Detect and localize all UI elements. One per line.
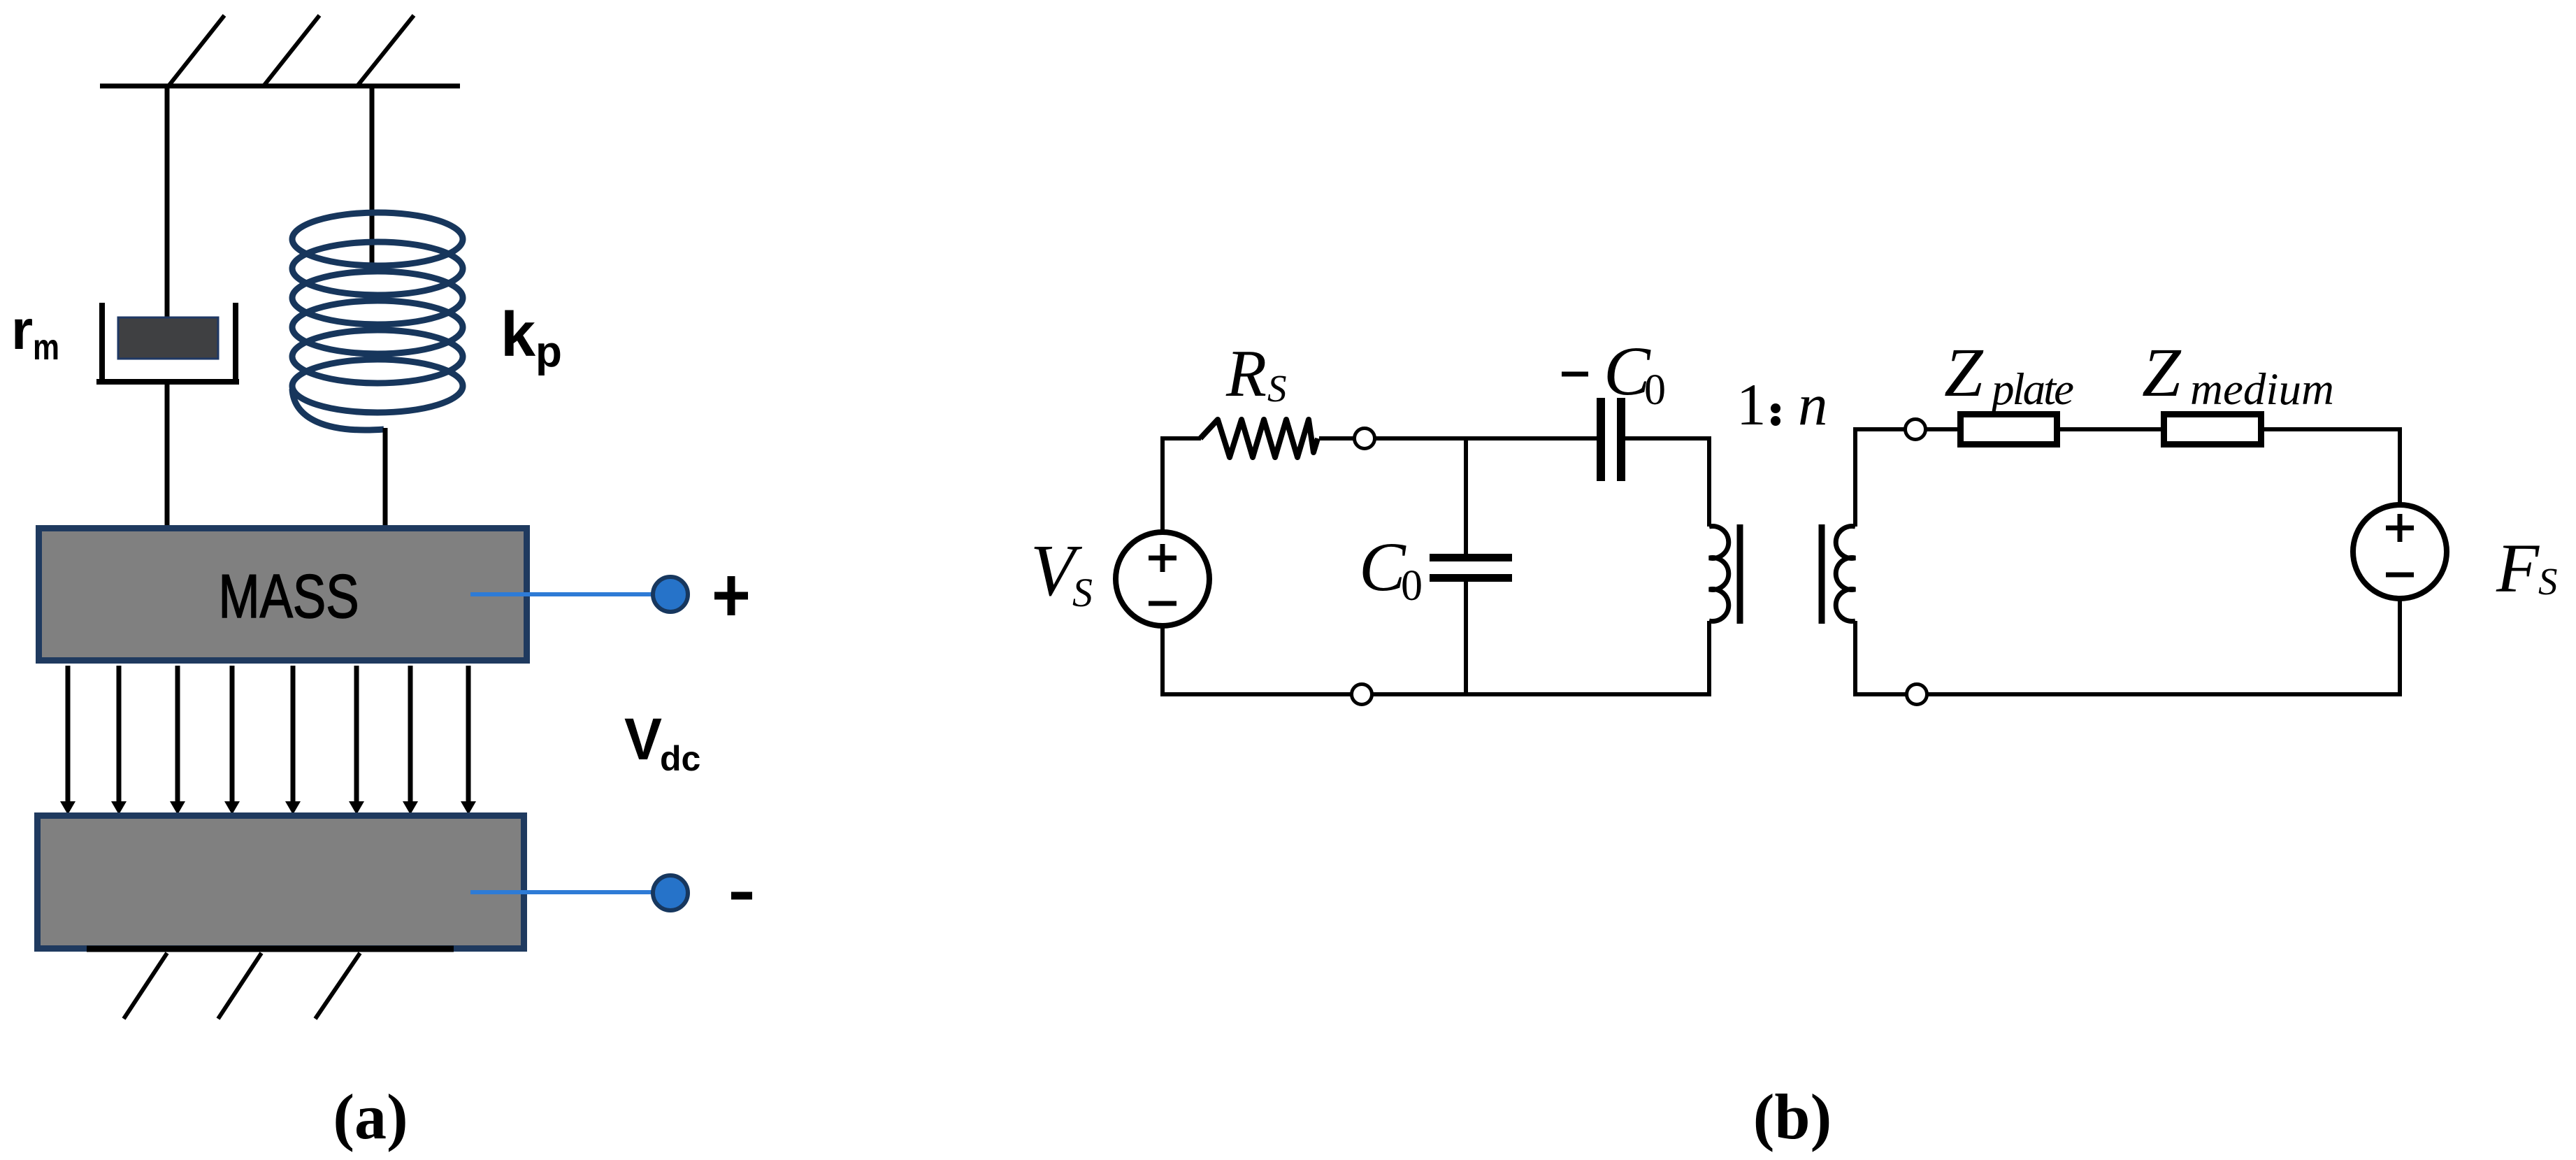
electrode wire plus	[470, 592, 660, 596]
transformer primary coil	[1709, 527, 1729, 622]
svg-text:C: C	[1359, 528, 1406, 606]
svg-text:0: 0	[1644, 366, 1666, 414]
svg-text:0: 0	[1401, 562, 1423, 610]
right loop top wire seg4	[2264, 427, 2402, 431]
svg-text:Z: Z	[1944, 334, 1984, 411]
damper rod upper	[165, 86, 170, 320]
transformer core bar left	[1737, 524, 1743, 624]
bottom wire left segment	[1160, 692, 1353, 696]
mid branch wire lower	[1464, 582, 1468, 694]
svg-text:medium: medium	[2190, 364, 2334, 415]
impedance Z_plate box	[1961, 415, 2057, 445]
ground hatch 3	[315, 953, 360, 1019]
wire primary vertical lower	[1707, 621, 1711, 696]
svg-text:r: r	[11, 299, 33, 361]
svg-text:S: S	[1072, 570, 1093, 615]
capacitor -C0 plates	[1601, 398, 1621, 481]
right loop top wire seg1	[1855, 427, 1907, 431]
spring coil k_p	[292, 213, 463, 430]
svg-text:F: F	[2496, 529, 2540, 607]
damper cup	[96, 303, 239, 382]
ceiling wall line	[100, 84, 460, 89]
svg-text:k: k	[501, 300, 536, 370]
damper rod lower	[165, 385, 170, 528]
spring top lead	[370, 86, 375, 264]
wire -C0 to corner	[1625, 436, 1711, 441]
svg-text:p: p	[535, 328, 562, 376]
node terminal top right	[1906, 420, 1926, 440]
spring bottom lead	[383, 428, 388, 528]
resistor R_S	[1200, 420, 1318, 457]
ground hatch 1	[124, 953, 167, 1019]
svg-text:plate: plate	[1989, 364, 2074, 415]
svg-text:S: S	[2538, 560, 2558, 603]
source F_S	[2353, 505, 2447, 599]
svg-text:V: V	[624, 706, 662, 772]
svg-text:MASS: MASS	[219, 561, 359, 631]
label plus	[714, 576, 748, 615]
mid branch wire upper	[1464, 438, 1468, 554]
ground hatch 2	[218, 953, 261, 1019]
electrode wire minus	[470, 890, 660, 894]
wire resistor to node	[1319, 436, 1356, 441]
capacitor C0 plates	[1430, 558, 1512, 578]
wire node to -C0	[1373, 436, 1597, 441]
wire left vertical lower	[1160, 626, 1165, 696]
F_S plus sign	[2386, 514, 2414, 542]
MASS plate	[39, 529, 527, 661]
transformer core bar right	[1819, 524, 1825, 624]
terminal plus dot	[653, 577, 688, 612]
wire top left	[1160, 436, 1201, 441]
ceiling hatch 1	[168, 15, 224, 86]
ceiling hatch 3	[357, 15, 414, 86]
label -C0	[1562, 372, 1588, 377]
impedance Z_medium box	[2164, 415, 2261, 445]
source V_S	[1116, 532, 1209, 626]
svg-text:m: m	[33, 327, 59, 368]
V_S plus sign	[1149, 544, 1177, 572]
right loop bottom wire seg1	[1853, 692, 1908, 696]
right vertical lower	[2398, 599, 2402, 696]
svg-text:(a): (a)	[333, 1081, 408, 1152]
right vertical upper	[2398, 427, 2402, 505]
svg-text:dc: dc	[660, 739, 700, 778]
svg-text:Z: Z	[2142, 334, 2182, 411]
right loop top wire seg3	[2060, 427, 2161, 431]
bottom electrode plate	[38, 816, 524, 949]
damper piston r_m	[118, 317, 218, 359]
svg-text:1: 1	[1736, 372, 1766, 438]
svg-text:R: R	[1225, 336, 1267, 410]
V_S minus sign	[1149, 601, 1177, 606]
svg-text:S: S	[1267, 367, 1287, 410]
right loop bottom wire seg2	[1925, 692, 2402, 696]
svg-text:n: n	[1798, 372, 1828, 438]
svg-text:(b): (b)	[1753, 1081, 1832, 1152]
wire primary vertical upper	[1707, 436, 1711, 527]
F_S minus sign	[2386, 573, 2414, 578]
transformer secondary coil	[1836, 527, 1855, 622]
wire left vertical upper	[1160, 438, 1165, 532]
wire secondary vertical upper	[1853, 427, 1857, 527]
label minus	[731, 892, 752, 900]
node terminal bottom left	[1352, 685, 1372, 705]
bottom wire left loop to primary	[1370, 692, 1711, 696]
terminal minus dot	[653, 875, 688, 910]
right loop top wire seg2	[1924, 427, 1957, 431]
node terminal top left	[1355, 429, 1375, 449]
field arrows	[60, 666, 476, 815]
wire secondary vertical lower	[1853, 621, 1857, 696]
ceiling hatch 2	[264, 15, 319, 86]
ground edge line	[87, 946, 454, 952]
node terminal bottom right	[1907, 685, 1927, 705]
